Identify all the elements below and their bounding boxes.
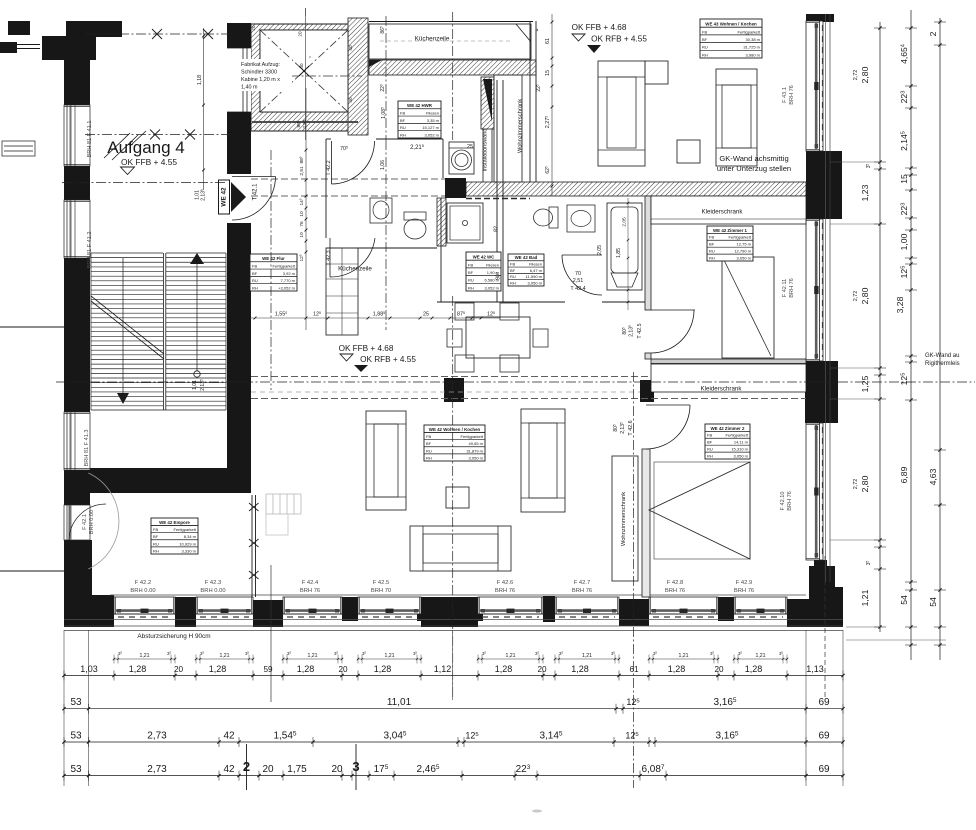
svg-text:Fertigparkett: Fertigparkett [174,527,197,532]
svg-text:FB: FB [702,29,707,34]
wall left pier between F41.1 and F41.2 [64,166,90,200]
railing break marks [249,503,259,511]
svg-text:Küchenzeile: Küchenzeile [415,36,450,43]
dining chairs [455,303,474,320]
svg-text:FB: FB [707,433,712,438]
svg-text:Aufgang 4: Aufgang 4 [107,138,185,157]
svg-text:7,770 m: 7,770 m [281,278,296,283]
svg-text:31,725 m: 31,725 m [743,45,760,50]
svg-text:RH: RH [510,280,516,285]
svg-text:RH: RH [709,255,715,260]
svg-text:53: 53 [70,731,82,742]
right wall top stub [806,14,834,22]
WE43 sofa left [598,61,645,166]
dimension row 3 [64,741,843,743]
right chain A line [879,22,881,632]
svg-text:Fliesen: Fliesen [426,110,439,115]
svg-text:1,21: 1,21 [860,589,870,606]
elevator cabin [260,30,348,112]
svg-text:1,06: 1,06 [380,160,386,170]
svg-text:Fertigparkett: Fertigparkett [461,434,484,439]
svg-text:1,28: 1,28 [668,664,686,674]
svg-text:RU: RU [468,278,474,283]
WE43 kitchen counter [369,24,531,59]
WE43 side table lower [677,140,700,163]
svg-text:RU: RU [153,541,159,546]
bed Zimmer 1 with diagonal [722,257,774,358]
svg-text:6,89: 6,89 [899,466,909,483]
svg-text:F 43.1: F 43.1 [782,87,788,103]
neighbor building stub top-left [8,21,30,35]
svg-text:T 42.4: T 42.4 [570,286,585,292]
right chain A connectors [830,161,880,163]
diagonal strokes above Aufgang [104,133,130,158]
stair guide line left flight [122,258,124,396]
room walls WC and bath outline [326,138,331,140]
bathtub [607,203,642,290]
stair diagonal break line [91,296,164,354]
stair treads right flight [166,252,226,254]
dimension extension verticals bottom [63,630,65,786]
svg-text:2,80: 2,80 [860,66,870,83]
coffee table [446,487,469,508]
door T 42.3 leaf and arc [329,238,331,277]
WE43 side table upper [645,61,668,84]
grid axis 2 marker [246,744,248,790]
dining table [466,317,530,358]
window F 42.11 right wall [806,219,823,361]
svg-text:OK FFB + 4.68: OK FFB + 4.68 [572,23,627,32]
svg-text:54: 54 [899,595,909,605]
room info table WE 43 Wohnen / Kochen [700,19,762,58]
svg-text:Wohnzimmerschrank: Wohnzimmerschrank [518,99,524,153]
elevator label Fabrikat Aufzug [240,59,292,91]
pier mid GK-wall axis [444,378,464,402]
wall WE43 kitchen / living divider [529,21,531,182]
svg-text:T 42.2: T 42.2 [326,160,332,175]
svg-text:Küchenzeile: Küchenzeile [338,266,372,273]
svg-text:WE 42 Flur: WE 42 Flur [262,256,285,261]
svg-text:15,127 m: 15,127 m [422,125,439,130]
wall central vertical (stairwell/apartment) [227,23,251,493]
axis line y134.5 with X [85,134,237,136]
stair landing line [91,409,226,411]
svg-text:1,01: 1,01 [192,380,198,390]
bottom wall pier F42.4/F42.5 [342,597,358,621]
svg-text:3: 3 [352,759,359,774]
svg-text:WE 42 Zimmer 2: WE 42 Zimmer 2 [711,426,745,431]
svg-text:BF: BF [400,118,406,123]
svg-text:RU: RU [702,45,708,50]
room info table WE 42 Wohnen / Kochen [424,425,485,461]
svg-text:20: 20 [262,764,274,775]
main horizontal axis y382 [56,381,975,383]
svg-text:8,34 m: 8,34 m [184,534,197,539]
interior dim chain x628 bath vertical [627,198,629,310]
svg-text:3,980 m: 3,980 m [746,52,761,57]
svg-text:1,40 m: 1,40 m [241,85,258,91]
neighbor window left edge [2,141,35,156]
vertical axis x452.7 [452,12,454,140]
svg-text:2,73: 2,73 [147,764,167,775]
svg-text:1,13: 1,13 [806,664,824,674]
svg-text:42: 42 [223,764,235,775]
bottom wall pier axis2 [253,600,283,627]
living sofa bottom [410,526,511,571]
hatched wall Installationswand [481,77,494,129]
elevator axis lines [255,75,362,77]
hatched wall band GK y186 right part [466,182,806,196]
grid axis 3 marker [355,744,357,790]
svg-text:20: 20 [537,665,547,674]
svg-text:Fabrikat Aufzug:: Fabrikat Aufzug: [241,62,280,68]
svg-text:Kleiderschrank: Kleiderschrank [701,386,743,393]
svg-text:FB: FB [153,527,158,532]
ghost stair below Empore gray [265,494,267,514]
svg-text:WE 42 Wohnen / Kochen: WE 42 Wohnen / Kochen [429,427,481,432]
svg-text:3,050 m: 3,050 m [469,455,484,460]
svg-text:20: 20 [298,31,303,37]
vertical axis x271 [270,150,272,390]
Bad toilet [549,207,558,228]
dimension row 2 [64,708,843,710]
WC washbasin [370,198,392,223]
window F 41.2 left wall [64,200,90,258]
svg-text:RU: RU [400,125,406,130]
stair guide line right flight [194,371,200,377]
svg-text:F 42.3: F 42.3 [205,580,221,586]
svg-text:3,050 m: 3,050 m [737,255,752,260]
window F 42.6 bottom wall [478,597,543,614]
svg-text:40: 40 [299,63,304,69]
svg-text:BRH 76: BRH 76 [789,278,795,298]
Bad washbasin [567,205,595,232]
svg-text:15: 15 [545,70,551,76]
svg-text:BRH 76: BRH 76 [734,588,754,594]
window F 42.7 bottom wall [555,597,619,614]
door T 42.4 leaf and arc [562,254,602,256]
wall horizontal Empore top [85,468,251,493]
svg-text:10: 10 [299,211,305,217]
svg-text:OK RFB + 4.55: OK RFB + 4.55 [591,35,647,44]
svg-text:F 42.1: F 42.1 [82,514,88,530]
svg-text:WE 42 Bad: WE 42 Bad [515,255,538,260]
svg-text:1,21: 1,21 [139,653,149,659]
svg-text:RU: RU [426,448,432,453]
svg-text:T 42.3: T 42.3 [326,250,332,265]
bottom wall mullion F42.8/F42.9 [718,597,734,621]
svg-text:1,21: 1,21 [678,653,688,659]
svg-text:1,21: 1,21 [219,653,229,659]
svg-text:FB: FB [400,110,405,115]
svg-text:1,28: 1,28 [209,664,227,674]
door gap WE 42 in central wall [227,174,251,223]
svg-text:RH: RH [252,285,258,290]
svg-text:69: 69 [818,731,830,742]
room info table WE 42 Zimmer 2 [705,424,750,459]
dashed GK wall band y186 left part [251,178,445,180]
svg-text:2,51: 2,51 [302,119,308,129]
kitchen counter WE42 [326,248,358,335]
svg-text:1,21: 1,21 [384,653,394,659]
svg-text:F 42.11: F 42.11 [782,279,788,298]
svg-text:1,28: 1,28 [495,664,513,674]
svg-text:F 42.6: F 42.6 [497,580,513,586]
WC toilet [404,212,426,220]
svg-text:WE 42 WC: WE 42 WC [473,255,496,260]
railing Empore edge [251,495,253,597]
svg-text:20: 20 [338,665,348,674]
svg-text:WE 42 Zimmer 1: WE 42 Zimmer 1 [713,228,747,233]
dimension row 4 [64,775,843,777]
stair outline box [90,253,92,410]
svg-text:10,929 m: 10,929 m [179,541,196,546]
wardrobe Wohnzimmerschrank lower [612,456,638,581]
svg-text:1,85: 1,85 [616,248,622,258]
svg-text:49,65 m: 49,65 m [469,441,484,446]
interior dim chain x306 vertical [305,88,307,330]
svg-text:3,050 m: 3,050 m [528,280,543,285]
Kleiderschrank strip Zimmer 1 [651,196,806,224]
svg-text:12,790 m: 12,790 m [734,248,751,253]
elevator center X mark [299,66,309,76]
bottom-right corner stepped pier [814,560,827,574]
wall left exterior upper segment [64,58,90,105]
shower tray [447,203,483,243]
svg-text:OK FFB + 4.68: OK FFB + 4.68 [339,344,394,353]
window F 42.4 bottom wall [283,597,342,614]
svg-text:F 42.9: F 42.9 [736,580,752,586]
svg-text:25: 25 [423,312,429,318]
svg-text:20: 20 [714,665,724,674]
right wall outer sill lines [825,14,827,582]
svg-text:3,28: 3,28 [895,296,905,313]
svg-text:1,75: 1,75 [287,764,307,775]
svg-text:2,80: 2,80 [860,475,870,492]
svg-text:FB: FB [468,262,473,267]
svg-text:1,28: 1,28 [374,664,392,674]
svg-text:Rigithermleis: Rigithermleis [925,361,960,367]
svg-text:3,35 m: 3,35 m [427,118,440,123]
svg-text:11,01: 11,01 [387,697,412,708]
svg-text:RU: RU [252,278,258,283]
svg-text:53: 53 [70,697,82,708]
svg-text:T 42.6: T 42.6 [628,420,634,435]
svg-text:BRH 0.00: BRH 0.00 [200,588,225,594]
svg-text:BRH 70: BRH 70 [371,588,391,594]
svg-text:53: 53 [70,764,82,775]
svg-text:BRH 76: BRH 76 [300,588,320,594]
svg-text:3,050 m: 3,050 m [734,453,749,458]
svg-text:31,879 m: 31,879 m [466,448,483,453]
svg-text:BF: BF [426,441,432,446]
room info table WE 42 HWR [398,101,441,138]
stray scan dots [536,29,538,31]
svg-text:69: 69 [818,697,830,708]
svg-text:11,590 m: 11,590 m [526,274,543,279]
svg-text:Schindler 3300: Schindler 3300 [241,70,277,76]
axis line y34 with demolition X [85,33,237,35]
svg-text:RH: RH [702,52,708,57]
WE43 sofa right [716,69,757,166]
svg-text:42: 42 [223,731,235,742]
svg-text:3,92 m: 3,92 m [283,271,296,276]
stair treads left flight [91,252,163,254]
svg-text:25: 25 [467,144,473,150]
svg-text:BF: BF [510,268,516,273]
interior dim line y318 flur [250,317,500,319]
svg-text:2,51: 2,51 [573,278,584,284]
pier at Installationswand junction [445,178,466,198]
right chain C line [939,18,941,660]
svg-text:1,28: 1,28 [297,664,315,674]
svg-text:RH: RH [707,453,713,458]
svg-text:61: 61 [545,38,551,44]
window F 43.1 right wall [806,21,823,151]
svg-text:WE 42 Empore: WE 42 Empore [159,520,190,525]
vertical axis x308 shaft [305,8,307,16]
svg-text:1,25: 1,25 [860,375,870,392]
svg-text:Fertigparkett: Fertigparkett [273,263,296,268]
svg-text:2,80: 2,80 [860,287,870,304]
svg-text:unter Unterzug stellen: unter Unterzug stellen [717,164,791,173]
svg-text:GK-Wand au: GK-Wand au [925,353,959,359]
black wedge Installationswand [483,79,492,122]
svg-text:RH: RH [153,548,159,553]
svg-text:Fertigparkett: Fertigparkett [738,29,761,34]
svg-text:15,310 m: 15,310 m [731,446,748,451]
svg-text:70: 70 [575,271,581,277]
svg-text:82: 82 [494,226,500,232]
svg-text:F 42.2: F 42.2 [135,580,151,586]
svg-text:RH: RH [426,455,432,460]
wall left long segment mid [64,258,90,412]
svg-text:Kleiderschrank: Kleiderschrank [702,209,744,216]
bottom wall interior face line [110,594,806,596]
svg-text:1,00: 1,00 [899,233,909,250]
svg-text:2: 2 [928,31,938,36]
window F 42.9 bottom wall [734,597,787,614]
svg-text:2,05: 2,05 [622,217,628,227]
svg-text:T 42.1: T 42.1 [253,183,259,201]
window F 42.10 right wall [806,423,823,560]
svg-text:1,21: 1,21 [755,653,765,659]
svg-text:1,23: 1,23 [860,184,870,201]
svg-text:12,75 m: 12,75 m [737,242,752,247]
svg-text:1,18: 1,18 [197,75,203,85]
svg-text:20: 20 [331,764,343,775]
right chain B line [910,10,912,660]
svg-text:F 42.4: F 42.4 [302,580,319,586]
svg-text:2,73: 2,73 [147,731,167,742]
bottom wall pier F42.7/F42.8 [619,599,649,626]
wall left pier below F41.3 [64,470,90,505]
pier right wall at Zimmer1 top [806,151,842,219]
svg-text:RH: RH [468,285,474,290]
svg-text:2,72: 2,72 [853,291,859,302]
living sofa right [521,409,565,512]
elevator shaft right bearing wall hatched [348,18,368,135]
svg-text:40: 40 [348,45,353,51]
svg-text:2,72: 2,72 [853,70,859,81]
svg-text:BRH 76: BRH 76 [787,491,793,511]
svg-text:OK FFB + 4.55: OK FFB + 4.55 [121,157,177,167]
black wedge at band left end [369,60,382,67]
bottom wall pier F42.2/F42.3 [175,597,196,627]
svg-text:BRH 76: BRH 76 [789,85,795,105]
door T 42.6 leaf and arc [646,404,690,406]
svg-text:20: 20 [251,25,256,31]
door WE 42 label box [219,180,230,214]
elevator shaft bottom joint line [252,121,358,123]
dashed GK wall band y376-400 [251,376,806,378]
svg-text:69: 69 [818,764,830,775]
svg-text:WE 43 Wohnen / Kochen: WE 43 Wohnen / Kochen [705,22,757,27]
svg-text:FB: FB [709,235,714,240]
svg-text:20: 20 [174,665,184,674]
svg-text:OK RFB + 4.55: OK RFB + 4.55 [360,355,416,364]
svg-text:T 42.5: T 42.5 [637,323,643,338]
svg-text:Absturzsicherung H 90cm: Absturzsicherung H 90cm [137,633,210,640]
large swing arc bottom left [88,473,119,569]
door WE 42 triangle [231,182,246,212]
svg-text:1,28: 1,28 [571,664,589,674]
door T 42.5 leaf and arc [651,309,695,311]
stair middle wall [163,253,165,410]
svg-text:15: 15 [899,174,909,184]
svg-text:6,47 m: 6,47 m [530,268,543,273]
svg-text:F 42.7: F 42.7 [574,580,590,586]
svg-text:RH: RH [400,132,406,137]
svg-text:1,12: 1,12 [434,664,452,674]
window F 42.3 bottom wall [196,597,253,614]
hatched wall band below WE43 kitchen [369,60,536,75]
svg-text:FB: FB [510,261,515,266]
svg-text:10: 10 [299,232,305,238]
svg-text:F 42.8: F 42.8 [667,580,683,586]
washing machine HWR [449,142,474,174]
wall living / Zimmer2 [642,449,650,597]
svg-text:76: 76 [299,221,305,227]
wall left bottom segment + corner [64,540,92,627]
WE43 top wall line [369,21,533,23]
interior dim chain x203 vertical upper [203,28,205,190]
svg-text:2,05: 2,05 [597,245,603,255]
interior dim chain x552 vertical [551,14,553,196]
svg-text:BF: BF [709,242,715,247]
svg-text:1,21: 1,21 [505,653,515,659]
svg-text:RU: RU [709,248,715,253]
svg-text:1,21: 1,21 [582,653,592,659]
vertical dashed x825 [824,556,826,700]
svg-text:Wohnzimmerschrank: Wohnzimmerschrank [621,492,627,546]
bottom wall outer sill lines [64,619,843,621]
svg-text:Fliesen: Fliesen [486,262,499,267]
room info table WE 42 WC [466,252,501,291]
dimension row 1 window sub dims [114,658,175,660]
svg-text:FB: FB [252,263,257,268]
elevator shaft hatched walls [251,24,359,131]
elevator cabin dashed cross [260,30,348,112]
elevator door gap in central wall [227,48,251,112]
svg-text:RU: RU [707,446,713,451]
svg-text:BRH 76: BRH 76 [572,588,592,594]
svg-text:30,38 m: 30,38 m [746,37,761,42]
wall band Zimmer1 bottom [651,359,806,364]
svg-text:14,11 m: 14,11 m [734,440,749,445]
door T 42.2 leaf and arc [331,141,333,184]
dimension row 1 windows [64,675,843,677]
